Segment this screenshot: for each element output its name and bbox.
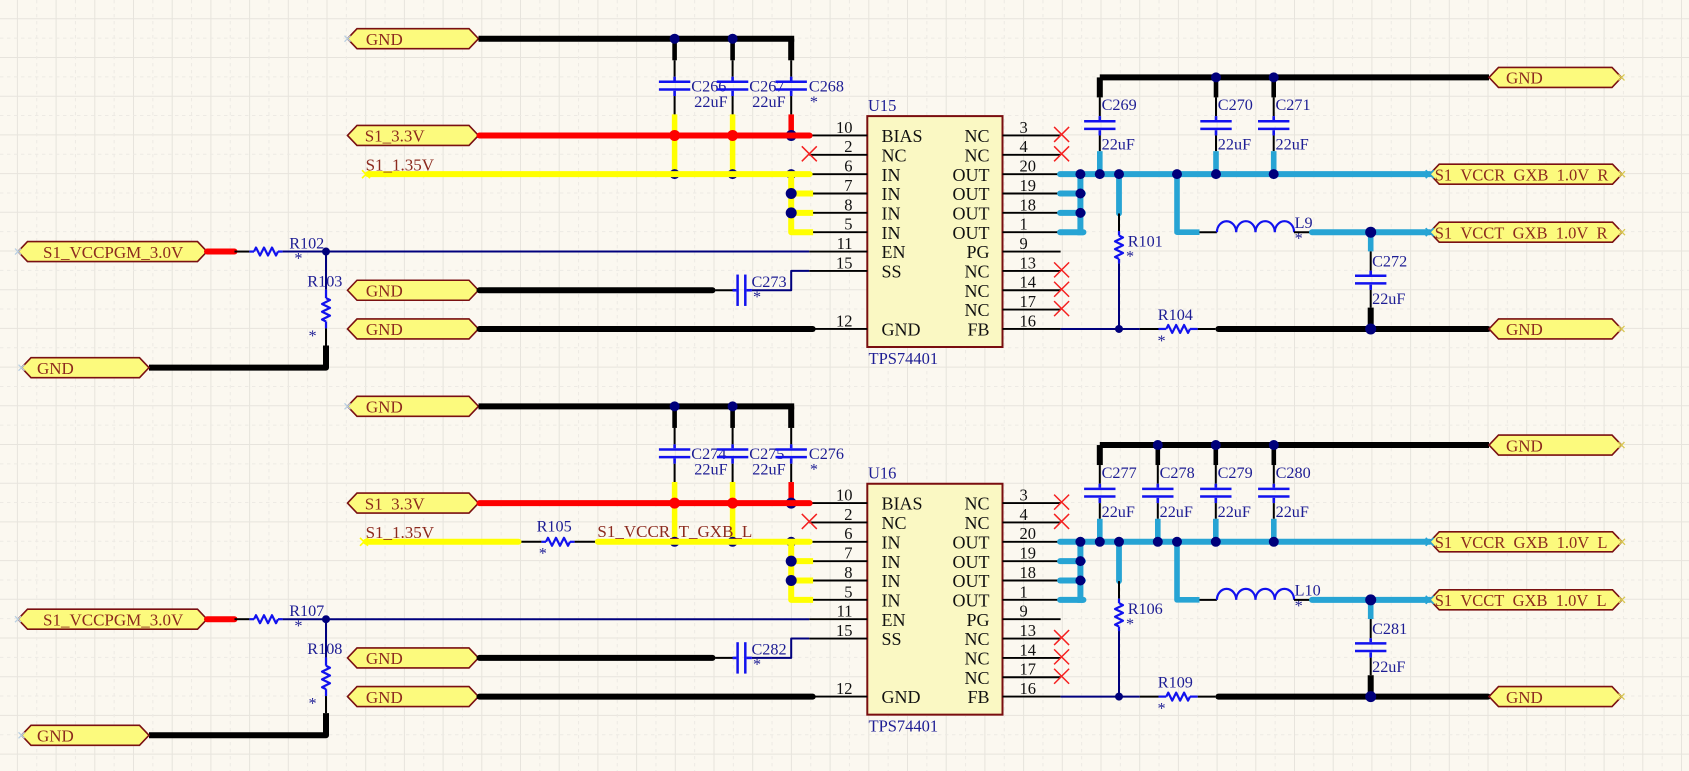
wire end marker VCCR top [1426, 170, 1434, 178]
pin 16 U16 [1003, 696, 1061, 698]
port S1_3.3V bottom [348, 493, 479, 513]
junction OUT col 19 top [1075, 189, 1085, 199]
port GND pin12 top [348, 319, 479, 339]
svg-text:17: 17 [1020, 660, 1037, 679]
pin 8 U15 [809, 212, 867, 214]
svg-text:C279: C279 [1218, 464, 1253, 482]
svg-text:GND: GND [366, 649, 403, 668]
wire R109 to GND [1218, 694, 1488, 700]
svg-text:GND: GND [366, 281, 403, 300]
wire S1_VCCR_T_GXB_L segment [598, 539, 810, 545]
svg-text:BIAS: BIAS [882, 126, 923, 146]
wire FB net bottom [1061, 696, 1140, 698]
wire end marker S1_1.35V bottom [360, 538, 368, 546]
wire end marker VCCT bottom [1426, 596, 1434, 604]
svg-text:OUT: OUT [953, 590, 990, 610]
pin 14 U16 [1003, 657, 1061, 659]
svg-text:4: 4 [1020, 505, 1028, 524]
junction C274-1.35V [670, 537, 680, 547]
svg-text:8: 8 [844, 195, 852, 214]
wire C271 top stub [1271, 77, 1276, 97]
capacitor C275 [731, 444, 734, 448]
svg-text:7: 7 [844, 176, 852, 195]
junction yellow column rail top [786, 169, 796, 179]
capacitor C272 [1369, 271, 1372, 275]
svg-text:GND: GND [366, 30, 403, 49]
svg-text:GND: GND [1506, 688, 1543, 707]
no-connect pin17 U15 [1054, 301, 1069, 316]
svg-text:C270: C270 [1218, 96, 1253, 114]
svg-text:R109: R109 [1158, 674, 1193, 692]
wire inductor out top [1294, 231, 1312, 233]
junction OUT col rail top [1075, 169, 1085, 179]
port S1_VCCR_GXB_1.0V_L [1430, 532, 1622, 552]
wire C279 top stub [1214, 445, 1219, 465]
junction C279-GND [1211, 440, 1221, 450]
wire VCCPGM red stub bottom [207, 616, 235, 622]
junction C271-GND [1269, 72, 1279, 82]
svg-text:NC: NC [964, 629, 989, 649]
svg-text:*: * [1126, 615, 1134, 633]
junction C275-1.35V [728, 537, 738, 547]
pin 18 U15 [1003, 212, 1061, 214]
svg-text:C278: C278 [1160, 464, 1195, 482]
resistor R102 [235, 251, 250, 253]
junction C276-3.3V [786, 498, 797, 509]
port S1_VCCT_GXB_1.0V_R [1430, 222, 1622, 242]
wire end marker VCCT top [1426, 228, 1434, 236]
pin 9 U15 [1003, 251, 1061, 253]
pin 7 U16 [809, 560, 867, 562]
wire S1_3.3V rail bottom [480, 500, 810, 506]
svg-text:IN: IN [882, 165, 901, 185]
pin 16 U15 [1003, 328, 1061, 330]
svg-text:NC: NC [964, 126, 989, 146]
junction EN-R103 [322, 248, 330, 256]
junction yellow pin7 top [786, 188, 797, 199]
svg-text:NC: NC [964, 649, 989, 669]
svg-text:C271: C271 [1276, 96, 1311, 114]
svg-text:NC: NC [964, 262, 989, 282]
junction EN-R108 [322, 615, 330, 623]
svg-text:S1 3.3V: S1 3.3V [365, 494, 426, 513]
svg-text:S1_VCCPGM_3.0V: S1_VCCPGM_3.0V [43, 610, 184, 629]
capacitor C273 [733, 289, 737, 292]
wire end marker S1_1.35V [362, 170, 370, 178]
svg-text:14: 14 [1020, 640, 1037, 659]
wire VCCT rail top [1312, 229, 1430, 235]
svg-text:OUT: OUT [953, 165, 990, 185]
svg-text:NC: NC [964, 281, 989, 301]
svg-text:22uF: 22uF [1218, 135, 1251, 153]
svg-text:9: 9 [1020, 602, 1028, 621]
no-connect pin13 U16 [1054, 630, 1069, 645]
svg-text:GND: GND [366, 398, 403, 417]
wire GND top rail bottom [479, 403, 795, 409]
port S1_VCCR_GXB_1.0V_R [1430, 164, 1622, 184]
pin 1 U16 [1003, 599, 1061, 601]
svg-text:NC: NC [964, 145, 989, 165]
wire S1_1.35V rail [368, 171, 810, 177]
svg-text:IN: IN [882, 590, 901, 610]
port S1_3.3V top [348, 125, 479, 145]
svg-text:18: 18 [1020, 195, 1037, 214]
svg-text:22uF: 22uF [1372, 658, 1405, 676]
junction OUT col 18 bottom [1075, 576, 1085, 586]
pin 9 U16 [1003, 618, 1061, 620]
junction C267-GND [728, 34, 738, 44]
pin 4 U16 [1003, 521, 1061, 523]
junction C278-GND [1153, 440, 1163, 450]
port S1_VCCT_GXB_1.0V_L [1430, 590, 1622, 610]
port GND right-bottom bottom [1489, 687, 1622, 707]
port S1_VCCPGM_3.0V top [18, 242, 207, 262]
svg-text:FB: FB [967, 687, 989, 707]
wire C270 bottom stub [1215, 135, 1217, 151]
pin 15 U16 [809, 638, 867, 640]
svg-text:22uF: 22uF [752, 461, 785, 479]
wire C274 bottom stub [674, 464, 676, 482]
junction OUT col 18 top [1075, 208, 1085, 218]
svg-text:IN: IN [882, 552, 901, 572]
svg-text:EN: EN [882, 610, 906, 630]
pin 3 U16 [1003, 502, 1061, 504]
svg-text:6: 6 [844, 157, 852, 176]
svg-text:C272: C272 [1372, 252, 1407, 270]
svg-text:16: 16 [1020, 679, 1037, 698]
no-connect pin14 U16 [1054, 649, 1069, 664]
wire C275 bottom stub [732, 464, 734, 482]
pin 15 U15 [809, 270, 867, 272]
junction C278-VCCR [1153, 537, 1163, 547]
svg-text:R104: R104 [1158, 306, 1193, 324]
svg-text:NC: NC [964, 494, 989, 514]
wire to C282 [715, 657, 732, 659]
svg-text:5: 5 [844, 215, 852, 234]
wire to C273 [715, 289, 732, 291]
no-connect pin4 U16 [1054, 514, 1069, 529]
svg-text:11: 11 [837, 602, 853, 621]
junction R106-VCCR [1114, 537, 1124, 547]
capacitor C271 [1272, 116, 1275, 120]
svg-text:S1 VCCT GXB 1.0V R: S1 VCCT GXB 1.0V R [1435, 223, 1608, 242]
svg-text:17: 17 [1020, 292, 1037, 311]
junction C266-GND [670, 34, 680, 44]
junction OUT col rail bottom [1075, 537, 1085, 547]
svg-text:C281: C281 [1372, 620, 1407, 638]
wire SS net top [752, 271, 809, 290]
junction C267-1.35V [728, 169, 738, 179]
wire R106 top stub [1116, 542, 1122, 581]
svg-text:22uF: 22uF [694, 93, 727, 111]
inductor L10 [1217, 589, 1294, 600]
pin 20 U15 [1003, 173, 1061, 175]
junction C272-GND [1365, 323, 1376, 334]
svg-text:15: 15 [836, 253, 853, 272]
junction C275-GND [728, 401, 738, 411]
wire SS net bottom [752, 639, 809, 658]
pin 4 U15 [1003, 154, 1061, 156]
svg-text:R108: R108 [307, 640, 342, 658]
svg-text:3: 3 [1020, 118, 1028, 137]
wire C276 top stub [790, 428, 792, 444]
svg-text:22uF: 22uF [1372, 290, 1405, 308]
junction C274-3.3V [669, 498, 680, 509]
junction C270-VCCR [1211, 169, 1221, 179]
junction VCCT-C272 [1365, 227, 1376, 238]
svg-text:GND: GND [366, 320, 403, 339]
no-connect pin17 U16 [1054, 669, 1069, 684]
svg-text:22uF: 22uF [1218, 503, 1251, 521]
svg-text:NC: NC [882, 145, 907, 165]
junction C279-VCCR [1211, 537, 1221, 547]
wire OUT pin1 stub top [1060, 229, 1083, 235]
resistor R104 [1140, 328, 1159, 330]
pin 13 U15 [1003, 270, 1061, 272]
svg-text:SS: SS [882, 629, 902, 649]
no-connect pin3 U15 [1054, 127, 1069, 142]
capacitor C269 [1099, 116, 1102, 120]
wire GND-SS thick top [480, 287, 713, 293]
junction yellow pin8 bottom [786, 575, 797, 586]
pin 7 U15 [809, 193, 867, 195]
svg-text:7: 7 [844, 544, 852, 563]
capacitor C276 [790, 444, 793, 448]
capacitor C274 [673, 444, 676, 448]
op-amp regulator U16 body [867, 484, 1002, 715]
svg-text:S1 VCCT GXB 1.0V L: S1 VCCT GXB 1.0V L [1435, 591, 1607, 610]
svg-text:GND: GND [882, 320, 921, 340]
junction C275-3.3V [727, 498, 738, 509]
resistor R107 [235, 618, 250, 620]
wire C281 top stub [1368, 600, 1374, 619]
svg-text:6: 6 [844, 524, 852, 543]
pin 17 U16 [1003, 676, 1061, 678]
pin 1 U15 [1003, 231, 1061, 233]
svg-text:22uF: 22uF [1160, 503, 1193, 521]
wire C269 top stub [1099, 97, 1101, 116]
svg-text:12: 12 [836, 679, 853, 698]
svg-text:2: 2 [844, 137, 852, 156]
no-connect pin2 U16 [802, 514, 817, 529]
no-connect pin14 U15 [1054, 282, 1069, 297]
wire VCCT rail bottom [1312, 597, 1430, 603]
svg-text:GND: GND [366, 688, 403, 707]
svg-text:GND: GND [1506, 69, 1543, 88]
svg-text:10: 10 [836, 486, 853, 505]
junction C266-3.3V [669, 130, 680, 141]
pin 19 U15 [1003, 193, 1061, 195]
svg-text:IN: IN [882, 571, 901, 591]
svg-text:22uF: 22uF [1102, 503, 1135, 521]
svg-text:1: 1 [1020, 215, 1028, 234]
port GND top-right bottom [1489, 435, 1622, 455]
capacitor C278 [1157, 484, 1160, 488]
svg-text:12: 12 [836, 311, 853, 330]
wire GND pin12 top [480, 326, 813, 332]
wire OUT pin1 stub bottom [1060, 597, 1083, 603]
capacitor C280 [1273, 484, 1276, 488]
wire to inductor top [1200, 231, 1217, 233]
wire VCCT corner top [1177, 174, 1200, 232]
junction C277-VCCR [1095, 537, 1105, 547]
port GND bottom-left bottom [22, 725, 150, 745]
svg-text:1: 1 [1020, 582, 1028, 601]
svg-text:PG: PG [966, 610, 989, 630]
junction R106-FB [1115, 693, 1123, 701]
wire C278 bottom stub [1157, 503, 1159, 519]
junction C266-1.35V [670, 169, 680, 179]
pin 5 U16 [809, 599, 867, 601]
wire GND top rail top [479, 36, 795, 42]
wire C277 top stub [1099, 465, 1101, 484]
wire C267 top stub [730, 39, 735, 61]
svg-text:*: * [309, 695, 317, 713]
svg-text:*: * [539, 545, 547, 563]
svg-text:GND: GND [882, 687, 921, 707]
wire C280 top stub [1272, 445, 1277, 465]
capacitor C279 [1215, 484, 1218, 488]
svg-text:IN: IN [882, 184, 901, 204]
svg-text:18: 18 [1020, 563, 1037, 582]
svg-text:GND: GND [37, 727, 74, 746]
svg-text:IN: IN [882, 532, 901, 552]
junction VCCT-C281 [1365, 594, 1376, 605]
wire R104 to GND [1218, 326, 1488, 332]
inductor L9 [1217, 221, 1294, 232]
svg-text:22uF: 22uF [1102, 135, 1135, 153]
wire GND right rail top [1100, 74, 1489, 80]
port GND top-left top [348, 29, 479, 49]
svg-text:22uF: 22uF [752, 93, 785, 111]
pin 10 U15 [809, 134, 867, 136]
wire C272 bottom stub [1370, 290, 1372, 308]
svg-text:S1_1.35V: S1_1.35V [366, 523, 435, 542]
wire R108 to GND [325, 696, 327, 713]
pin 13 U16 [1003, 638, 1061, 640]
svg-text:C277: C277 [1102, 464, 1137, 482]
svg-text:IN: IN [882, 223, 901, 243]
wire GND right rail bottom [1100, 442, 1489, 448]
svg-text:S1_VCCPGM_3.0V: S1_VCCPGM_3.0V [43, 243, 184, 262]
pin 10 U16 [809, 502, 867, 504]
pin 8 U16 [809, 580, 867, 582]
svg-text:5: 5 [844, 582, 852, 601]
wire C270 top stub [1214, 77, 1219, 97]
pin 19 U16 [1003, 560, 1061, 562]
junction R101-FB [1115, 325, 1123, 333]
svg-text:20: 20 [1020, 157, 1037, 176]
svg-text:S1 VCCR GXB 1.0V R: S1 VCCR GXB 1.0V R [1435, 165, 1609, 184]
junction C270-GND [1211, 72, 1221, 82]
junction yellow pin8 top [786, 207, 797, 218]
svg-text:S1_VCCR_T_GXB_L: S1_VCCR_T_GXB_L [597, 522, 752, 541]
svg-text:3: 3 [1020, 486, 1028, 505]
svg-text:R103: R103 [307, 273, 342, 291]
wire yellow pin column bottom [791, 542, 813, 600]
junction OUT col 19 bottom [1075, 556, 1085, 566]
wire end marker VCCR bottom [1426, 538, 1434, 546]
svg-text:TPS74401: TPS74401 [869, 716, 939, 735]
wire to inductor bottom [1200, 599, 1217, 601]
svg-text:14: 14 [1020, 273, 1037, 292]
no-connect pin4 U15 [1054, 146, 1069, 161]
capacitor C267 [731, 77, 734, 81]
junction C274-GND [670, 401, 680, 411]
pin 5 U15 [809, 231, 867, 233]
svg-text:15: 15 [836, 621, 853, 640]
port GND top-right top [1489, 67, 1622, 87]
svg-text:NC: NC [964, 668, 989, 688]
svg-text:C269: C269 [1102, 96, 1137, 114]
port GND SS bottom [348, 648, 479, 668]
svg-text:R105: R105 [537, 518, 572, 536]
port GND SS top [348, 280, 479, 300]
wire yellow pin column top [791, 174, 813, 232]
wire C272 top stub [1368, 232, 1374, 251]
junction VCCT corner top [1172, 169, 1182, 179]
junction C281-GND [1365, 691, 1376, 702]
wire S1_1.35V left segment [366, 539, 519, 545]
resistor R103 [325, 252, 327, 290]
svg-text:GND: GND [1506, 436, 1543, 455]
svg-text:16: 16 [1020, 311, 1037, 330]
no-connect pin3 U16 [1054, 495, 1069, 510]
junction R101-VCCR [1114, 169, 1124, 179]
capacitor C270 [1215, 116, 1218, 120]
svg-text:11: 11 [837, 234, 853, 253]
wire inductor out bottom [1294, 599, 1312, 601]
svg-text:S1_1.35V: S1_1.35V [366, 155, 435, 174]
wire GND pin12 bottom [480, 694, 813, 700]
pin 12 U16 [809, 696, 867, 698]
svg-text:GND: GND [37, 359, 74, 378]
no-connect pin13 U15 [1054, 262, 1069, 277]
capacitor C282 [733, 657, 737, 660]
junction C269-VCCR [1095, 169, 1105, 179]
svg-text:OUT: OUT [953, 203, 990, 223]
wire R101 top stub [1116, 174, 1122, 213]
svg-text:U15: U15 [868, 96, 896, 115]
pin 6 U16 [809, 541, 867, 543]
svg-text:*: * [1158, 700, 1166, 718]
resistor R106 [1118, 599, 1120, 604]
resistor R109 [1140, 696, 1159, 698]
wire VCCR rail bottom [1060, 539, 1430, 545]
svg-text:*: * [1158, 332, 1166, 350]
wire C266 bottom stub [674, 96, 676, 114]
wire VCCPGM red stub top [207, 249, 235, 255]
svg-text:OUT: OUT [953, 184, 990, 204]
svg-text:NC: NC [964, 513, 989, 533]
capacitor C277 [1099, 484, 1102, 488]
svg-text:13: 13 [1020, 253, 1037, 272]
svg-text:TPS74401: TPS74401 [869, 349, 939, 368]
wire EN net bottom [283, 618, 810, 620]
svg-text:20: 20 [1020, 524, 1037, 543]
svg-text:C280: C280 [1276, 464, 1311, 482]
wire VCCT corner bottom [1177, 542, 1200, 600]
wire C279 bottom stub [1215, 503, 1217, 519]
wire C276 bottom stub [790, 464, 792, 482]
svg-text:8: 8 [844, 563, 852, 582]
svg-text:19: 19 [1020, 176, 1037, 195]
svg-text:22uF: 22uF [694, 461, 727, 479]
svg-text:4: 4 [1020, 137, 1028, 156]
svg-text:SS: SS [882, 262, 902, 282]
svg-text:9: 9 [1020, 234, 1028, 253]
wire R106 to FB [1118, 631, 1120, 697]
